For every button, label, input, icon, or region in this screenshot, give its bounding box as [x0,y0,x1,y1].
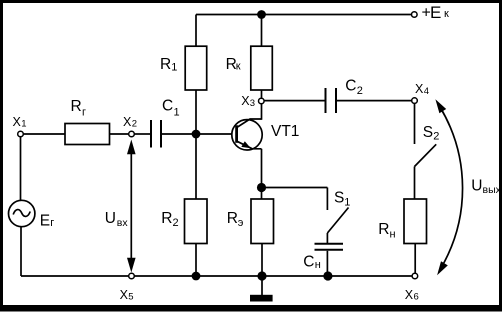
svg-text:X: X [405,288,414,302]
svg-text:R: R [227,210,238,227]
node +Ek terminal [412,3,450,22]
node X5 [120,273,135,302]
svg-text:R: R [71,98,82,115]
wire Re bottom [261,244,263,277]
svg-text:н: н [315,259,321,271]
junction top rail / Rk [257,10,266,19]
wire X3 to C2 [264,100,325,102]
svg-text:C: C [162,97,173,114]
wire Rk bottom to X3 [261,90,263,98]
svg-text:вх: вх [117,217,129,229]
svg-text:U: U [105,210,116,227]
measurement arrow Uvx [105,140,136,273]
wire R1 top [195,15,197,47]
wire X4 down to switch [414,103,416,144]
wire Cn to bottom rail [326,251,328,276]
wire X1 down to Eg [20,137,22,201]
measurement arc Uvyx [435,99,501,275]
svg-text:VT1: VT1 [271,123,299,140]
svg-text:X: X [13,115,22,129]
wire bottom rail [21,275,412,277]
resistor R1 [160,46,207,90]
ground [250,276,273,302]
svg-text:н: н [390,229,396,241]
svg-text:X: X [123,115,132,129]
svg-text:E: E [430,3,441,22]
node X2 [123,115,137,137]
svg-text:2: 2 [357,85,363,97]
switch S2 [415,124,440,167]
node X4 [412,82,429,103]
junction R2 bottom [192,272,201,281]
switch S1 [327,188,350,234]
svg-text:г: г [50,217,54,229]
wire S2 to Rn [414,167,416,200]
svg-text:1: 1 [174,107,180,119]
node X1 [13,115,27,137]
svg-text:C: C [303,253,314,270]
junction Cn bottom [323,271,332,280]
wire base node to transistor base [196,133,236,135]
resistor R2 [161,199,207,244]
wire C2 to X4 [337,100,412,102]
wire X1 to Rg [23,133,65,135]
svg-text:S: S [423,124,433,141]
wire emitter node to S1 [262,187,328,189]
wire X2 to C1 [134,133,150,135]
svg-text:вых: вых [483,184,502,196]
svg-text:E: E [40,213,50,230]
wire Rg to X2 [110,133,129,135]
capacitor C2 [326,77,363,113]
resistor Re [227,199,274,244]
svg-text:R: R [161,210,172,227]
junction emitter node [257,183,266,192]
svg-text:S: S [334,189,344,206]
svg-text:1: 1 [171,62,177,74]
junction ground node [257,271,266,280]
node X3 [241,94,264,109]
resistor Rn [378,199,426,244]
junction base node [192,130,201,139]
svg-text:4: 4 [424,86,429,97]
wire Rk top [261,15,263,47]
svg-text:3: 3 [250,98,255,109]
svg-text:6: 6 [414,291,419,302]
svg-text:1: 1 [344,197,350,209]
svg-text:R: R [160,56,171,73]
wire X3 to collector [261,104,263,120]
svg-text:э: э [238,217,244,229]
wire R2 top [195,134,197,200]
wire S1 to Cn [326,233,328,243]
svg-text:2: 2 [173,217,179,229]
resistor Rk [226,46,273,90]
wire emitter down [261,149,263,200]
svg-text:1: 1 [21,119,26,130]
capacitor Cn [303,244,343,271]
svg-text:R: R [378,221,389,238]
wire Rn to X6 [414,244,416,274]
resistor Rg [65,98,110,145]
svg-text:5: 5 [128,291,133,302]
wire top supply rail [196,14,412,16]
wire R1 bottom to base node [195,90,197,134]
capacitor C1 [151,97,180,147]
source Eg [9,200,55,229]
wire C1 to base node [162,133,196,135]
wire R2 bottom [195,244,197,277]
transistor VT1 [232,119,300,150]
svg-text:U: U [471,177,482,194]
svg-text:X: X [120,288,129,302]
svg-text:2: 2 [433,131,439,143]
svg-text:к: к [236,61,241,73]
wire Eg down to bottom rail [20,227,22,276]
node X6 [405,273,419,302]
svg-text:2: 2 [132,119,137,130]
svg-text:X: X [415,82,424,96]
svg-text:C: C [345,77,356,94]
svg-text:к: к [444,8,449,20]
svg-text:г: г [82,107,86,119]
